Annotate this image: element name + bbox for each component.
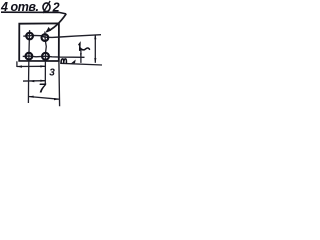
arrowhead left of dim 7 (30, 80, 35, 82)
horizontal centerline top row (through holes, extends right as extension line) (23, 35, 101, 38)
hole top-left (26, 33, 33, 40)
underline of note (1, 12, 66, 14)
svg-text:7: 7 (39, 81, 47, 96)
hole bottom-right (42, 53, 49, 60)
arrowhead right of dim 7 (40, 80, 45, 82)
left extension line below plate (16, 61, 18, 67)
hole bottom-left (26, 53, 33, 60)
plate outline (19, 23, 59, 61)
dimension line (bottom, lowest) (29, 97, 59, 100)
dimension line 7 (right, vertical) (94, 35, 96, 63)
svg-text:3: 3 (49, 67, 55, 78)
arrowhead left of dim 3 (17, 65, 22, 67)
dimension line 7 (bottom, middle) (23, 80, 45, 82)
bottom edge extension line going right (60, 63, 102, 65)
right edge extension line going down (58, 61, 61, 106)
vertical centerline right column (extends down as extension line) (45, 32, 46, 86)
arrowhead left of bottom lowest dim (29, 96, 34, 98)
horizontal centerline bottom row (extends right as extension line) (23, 56, 85, 57)
hole top-right (42, 34, 49, 41)
leader line to hole (46, 14, 66, 32)
arrowhead of right dim 3 (80, 53, 82, 57)
diameter symbol (43, 1, 50, 13)
vertical centerline left column (extends down as extension line) (28, 30, 29, 103)
dimension line 3 (bottom, upper) (17, 65, 45, 67)
arrowhead right of dim 3 (40, 65, 45, 67)
arrowhead top of right dim 7 (94, 34, 96, 39)
small arrow on bottom extension (71, 60, 76, 64)
label 7 (right, rotated) (79, 43, 90, 50)
arrowhead bottom of right dim 7 (94, 58, 96, 63)
dimension line 3 (right, vertical) (80, 49, 82, 63)
leader arrowhead (46, 27, 52, 33)
arrowhead right of bottom lowest dim (54, 98, 59, 100)
label 3 (right, rotated) (61, 59, 66, 63)
